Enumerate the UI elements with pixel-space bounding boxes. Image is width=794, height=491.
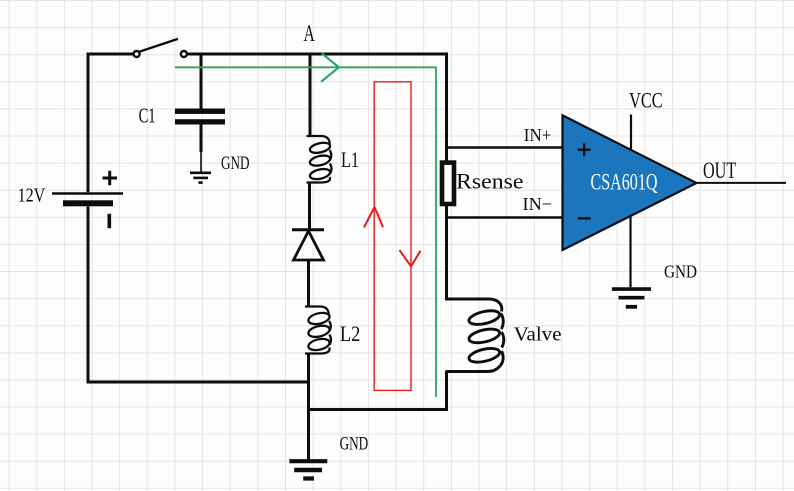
svg-text:IN+: IN+ (524, 125, 552, 145)
capacitor C1 plates (175, 109, 225, 114)
svg-text:12V: 12V (18, 185, 46, 207)
svg-text:Rsense: Rsense (456, 169, 524, 193)
wire op-amp ground (629, 217, 631, 288)
wire left rail top (88, 54, 133, 192)
svg-text:C1: C1 (139, 104, 156, 128)
svg-text:Valve: Valve (514, 325, 562, 346)
switch S1 lever (140, 39, 178, 52)
ground under C1 (190, 173, 211, 183)
red arrow up (364, 207, 383, 228)
wire L2 to bottom rail (307, 354, 310, 410)
wire C1 bottom stub (200, 124, 203, 152)
svg-text:L2: L2 (340, 322, 361, 346)
battery minus sign (108, 214, 112, 228)
switch S1 terminal left (134, 51, 140, 57)
wire OUT (697, 182, 786, 184)
svg-text:GND: GND (221, 153, 250, 174)
ground op-amp (612, 289, 651, 307)
svg-text:L1: L1 (341, 148, 359, 172)
wire diode to L2 (307, 260, 310, 307)
red arrow down (399, 250, 420, 266)
svg-text:GND: GND (664, 262, 697, 282)
battery plus sign (103, 171, 118, 185)
green arrow (321, 53, 339, 82)
diode D1 (292, 230, 324, 260)
wire bottom rail to ground (307, 410, 310, 460)
inductor Valve coil (447, 299, 504, 372)
switch S1 terminal right (181, 51, 187, 57)
inductor L1 (307, 136, 332, 183)
svg-text:VCC: VCC (629, 87, 663, 112)
op-amp minus input mark (578, 217, 591, 219)
op-amp U1 CSA601Q (563, 115, 697, 250)
red current loop (374, 82, 411, 391)
wire IN+ (447, 146, 563, 148)
wire C1 top stub (200, 54, 203, 109)
svg-text:IN−: IN− (523, 194, 553, 214)
green current path (175, 67, 436, 397)
ground bottom center (289, 461, 327, 478)
svg-text:CSA601Q: CSA601Q (591, 170, 658, 195)
wire Rsense bottom to valve top (445, 206, 448, 301)
wire left rail bottom + battery return (88, 207, 310, 383)
wire top from switch to right rail, down to Rsense (188, 54, 447, 161)
wire node A branch down (309, 54, 312, 136)
inductor L2 (305, 307, 331, 354)
svg-text:GND: GND (340, 434, 369, 455)
wire IN- (447, 216, 563, 218)
svg-text:OUT: OUT (703, 158, 737, 184)
wire valve bottom to bottom rail (309, 371, 447, 410)
resistor Rsense (442, 163, 454, 204)
battery 12V plates (52, 171, 123, 228)
op-amp plus input mark (578, 143, 591, 156)
wire C1 to ground thin (200, 151, 202, 172)
wire L1 to diode (308, 183, 311, 231)
wire VCC (630, 115, 632, 150)
svg-text:A: A (304, 21, 315, 47)
